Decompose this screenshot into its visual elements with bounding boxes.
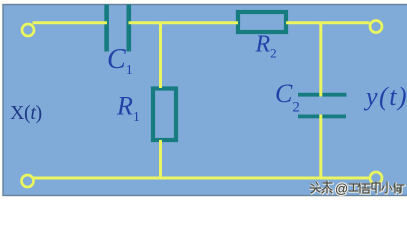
blue canvas background bbox=[3, 5, 407, 196]
wire top-left horizontal bbox=[33, 21, 108, 24]
capacitor C2 bbox=[298, 93, 347, 119]
wire vertical through R1 bbox=[159, 23, 162, 88]
wire R2 to top-right terminal bbox=[286, 21, 370, 24]
svg-text:X(t): X(t) bbox=[10, 102, 42, 124]
capacitor C1 bbox=[104, 5, 131, 52]
wire bottom rail bbox=[33, 177, 371, 180]
resistor R2 bbox=[238, 12, 286, 32]
watermark 头条 @工程师小何 bbox=[310, 181, 405, 194]
wire vertical to C2 top bbox=[319, 23, 322, 97]
wire C2 bottom to bottom rail bbox=[319, 115, 322, 179]
terminal top-right bbox=[370, 21, 382, 33]
wire R1 bottom to bottom rail bbox=[159, 140, 162, 178]
terminal bottom-left bbox=[22, 175, 34, 187]
wire C1 to R2 bbox=[129, 21, 239, 24]
terminal top-left bbox=[22, 24, 34, 36]
svg-text:@: @ bbox=[335, 181, 348, 196]
svg-text:y(t): y(t) bbox=[363, 82, 407, 111]
resistor R1 bbox=[153, 89, 176, 141]
terminal bottom-right bbox=[370, 172, 382, 184]
